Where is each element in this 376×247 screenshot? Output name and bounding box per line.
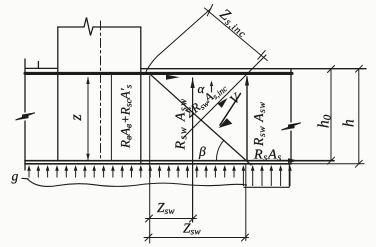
- Zsw2 right tick: [242, 234, 249, 241]
- Zsw1 dimension line: [146, 218, 197, 220]
- inclined crack: [149, 73, 252, 165]
- bottom extension line for h dimension: [291, 163, 364, 165]
- svg-text:h: h: [341, 119, 358, 127]
- Zsw dimension 1: [144, 215, 249, 241]
- svg-text:RsAs: RsAs: [253, 148, 282, 164]
- column right edge (extended down as extension line): [140, 27, 142, 164]
- left break flag left: [15, 114, 29, 121]
- Zsw dimension 2: [144, 237, 249, 239]
- svg-text:z: z: [68, 114, 85, 122]
- Zsw1 left tick: [146, 215, 153, 222]
- extension line from crack apex: [146, 9, 211, 72]
- stirrup arrowhead 2: [245, 76, 249, 86]
- h dimension line: [358, 69, 360, 164]
- z dim bottom arrowhead: [86, 154, 89, 160]
- z dim arrowheads: [86, 77, 89, 84]
- right break zigzag flags: [282, 123, 301, 130]
- h bottom tick: [355, 160, 362, 167]
- h0 dimension line: [330, 69, 332, 161]
- h0 dimension: [328, 65, 363, 167]
- left break line of beam: [24, 59, 26, 170]
- distributed load arrows: [27, 165, 292, 186]
- column left edge: [57, 27, 59, 160]
- stirrup line inside column zone: [110, 74, 112, 161]
- column top edge with break zigzag: [58, 18, 141, 36]
- tick P1: [207, 4, 212, 15]
- compression force arrowhead: [166, 75, 180, 80]
- h0 bottom tick: [328, 157, 335, 164]
- right break flag right: [288, 122, 302, 129]
- left break flag right: [22, 112, 36, 119]
- R_s A_s arrowhead: [288, 158, 298, 163]
- right break line of beam: [290, 69, 292, 164]
- svg-text:g: g: [12, 169, 19, 184]
- inclined bar force arrowhead (sigma R): [218, 98, 228, 108]
- stirrup force arrow 1 R_sw A_sw: [192, 78, 194, 222]
- svg-text:Rsw Asw: Rsw Asw: [251, 101, 268, 147]
- column centerline: [100, 21, 102, 158]
- left break zigzag connector: [16, 113, 35, 120]
- alpha small arrowhead: [210, 81, 213, 87]
- right break flag left: [281, 124, 295, 130]
- Z_s,inc dimension: [146, 4, 267, 71]
- svg-text:RвAв+RscA′s: RвAв+RscA′s: [118, 84, 135, 149]
- beam bottom face thick line: [25, 163, 291, 165]
- h0 top tick: [328, 66, 335, 73]
- R_s A_s force arrow shaft: [252, 160, 292, 162]
- alpha small arrow: [211, 83, 213, 92]
- svg-text:Zs,inc: Zs,inc: [216, 6, 252, 40]
- svg-text:α: α: [198, 81, 206, 96]
- svg-text:h0: h0: [316, 114, 334, 128]
- top reinforcement thick line: [25, 72, 292, 75]
- Zsw1 right tick: [190, 215, 197, 222]
- Zsw2 left tick: [145, 234, 152, 241]
- z dimension line: [87, 78, 89, 160]
- dimension line: [205, 8, 268, 61]
- beam top face right segment (extends as dim extension): [141, 68, 366, 70]
- stirrup arrowhead 1: [191, 78, 195, 88]
- V arrowhead: [219, 118, 233, 128]
- right load block bottom: [244, 165, 290, 188]
- soil wavy line: [27, 179, 247, 187]
- beta angle arc: [216, 140, 224, 160]
- small tick on top face: [37, 62, 39, 69]
- g leader: [22, 177, 29, 180]
- h top tick: [356, 65, 363, 72]
- arrowheads: [86, 75, 298, 163]
- V force arrow shaft: [220, 94, 241, 126]
- beam top face left segment: [25, 67, 58, 69]
- svg-text:Zsw: Zsw: [183, 221, 201, 238]
- inclined bar line: [183, 55, 266, 138]
- bottom reinforcement thin line (extends right as h0 extension): [25, 160, 334, 162]
- tick P2: [258, 51, 265, 60]
- extension from crack apex down to dims: [149, 76, 151, 243]
- extension below for Zsw2 right end: [245, 165, 247, 241]
- stirrup force arrow 2 R_sw A_sw: [246, 77, 248, 160]
- svg-text:Zsw: Zsw: [157, 200, 175, 217]
- svg-text:β: β: [198, 144, 206, 159]
